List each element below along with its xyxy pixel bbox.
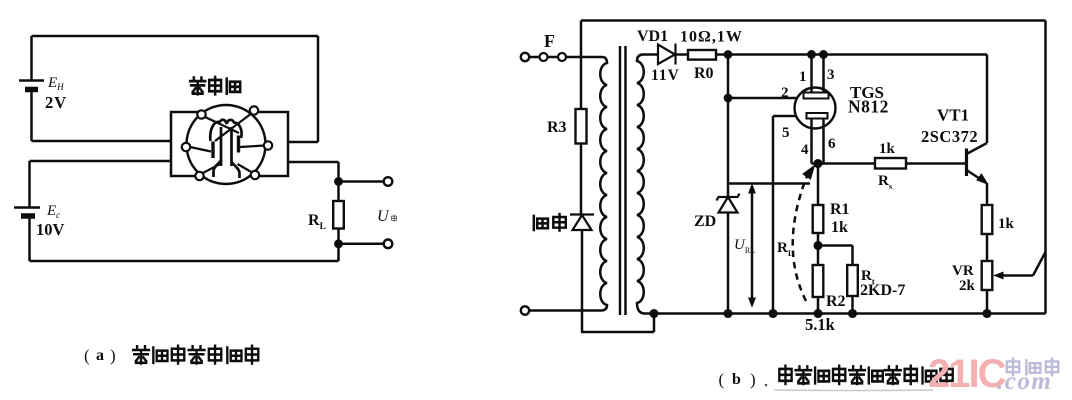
U_RL tick line [729, 182, 810, 185]
svg-text:11V: 11V [651, 67, 680, 84]
node secondary bottom [651, 310, 658, 317]
node pin5 ground [770, 310, 777, 317]
wire Rt bottom [851, 296, 854, 314]
svg-text:4: 4 [801, 142, 809, 158]
svg-text:(: ( [84, 346, 90, 365]
fuse F [540, 53, 567, 61]
terminal mains top [521, 53, 529, 61]
wire E_H vertical top [30, 36, 33, 81]
svg-text:2SC372: 2SC372 [921, 127, 978, 146]
svg-text:1k: 1k [831, 219, 848, 236]
wire fuse line [529, 56, 602, 59]
caption b scan underline [774, 389, 933, 392]
svg-text:F: F [544, 31, 555, 51]
svg-text:): ) [110, 346, 116, 365]
svg-text:a: a [96, 347, 104, 364]
svg-text:R2: R2 [826, 293, 846, 310]
node R2 ground [815, 310, 822, 317]
wire Rs to base [906, 162, 967, 165]
resistor RL [333, 201, 344, 229]
svg-text:10V: 10V [36, 220, 65, 239]
svg-text:2V: 2V [45, 93, 67, 112]
VR wiper [995, 252, 1046, 279]
outer frame top rail [581, 19, 1046, 22]
node ZD bottom [725, 310, 732, 317]
terminal U+ [384, 177, 393, 186]
wire sensor right top [288, 36, 318, 142]
transformer primary winding [600, 57, 607, 311]
pin4 wire [810, 119, 813, 164]
label sensor name [190, 77, 240, 94]
transformer secondary winding [637, 55, 654, 314]
sensor top electrode [804, 93, 829, 99]
svg-text:R0: R0 [694, 65, 714, 82]
svg-text:VR: VR [952, 263, 974, 279]
RL arc arrowhead [803, 166, 815, 180]
junction pins 4-6 [812, 162, 824, 165]
wire R2 bottom [817, 297, 820, 314]
wire VR bottom [986, 290, 989, 314]
node R1-R2 [815, 242, 822, 249]
sensor pins [182, 106, 272, 180]
svg-text:2: 2 [781, 85, 789, 101]
diode VD1 [658, 44, 676, 65]
pin5 wire [773, 116, 797, 314]
node pin3 [820, 51, 826, 57]
svg-text:R1: R1 [830, 201, 850, 218]
wire E_c bottom rail [30, 216, 339, 261]
svg-text:.com: .com [997, 368, 1052, 395]
wire 1k to VR [986, 234, 989, 261]
sensor pin lead lines [190, 113, 265, 174]
svg-text:R3: R3 [547, 119, 567, 136]
svg-text:RL: RL [777, 240, 794, 258]
svg-text:2KD-7: 2KD-7 [860, 282, 905, 299]
svg-text:21IC: 21IC [928, 352, 1006, 396]
wire R1 bottom [817, 233, 820, 265]
dc bottom rail [654, 312, 1046, 315]
svg-text:EH: EH [47, 75, 64, 92]
svg-text:): ) [750, 370, 756, 389]
wire to terminal top [339, 180, 384, 183]
svg-text:1k: 1k [879, 141, 896, 157]
svg-text:6: 6 [828, 136, 836, 152]
wire secondary to VD1 [643, 53, 658, 56]
wire pin2 [728, 97, 797, 100]
node ZD top [725, 51, 731, 57]
svg-text:VT1: VT1 [937, 106, 969, 125]
watermark dianziwang [1007, 359, 1058, 375]
U_RL arrow [749, 185, 755, 307]
resistor R1 [813, 205, 824, 233]
battery E_H [19, 81, 44, 90]
outer frame right [1044, 21, 1047, 314]
transformer core [620, 46, 626, 315]
wire VD1 to R0 [676, 53, 689, 56]
terminal U- [384, 240, 393, 249]
dc plus rail [716, 53, 987, 56]
resistor R2 [813, 265, 824, 297]
resistor R0 [688, 50, 716, 60]
wire ZD to ground [727, 213, 730, 314]
svg-text:RL: RL [308, 212, 326, 232]
svg-text:Ec: Ec [46, 203, 60, 220]
wire top rail a [32, 35, 319, 38]
RL dashed arc [793, 176, 807, 301]
neon lamp [570, 215, 594, 231]
wire R1 top [817, 164, 820, 206]
wire to Rs [818, 162, 875, 165]
terminal mains bottom [521, 306, 529, 314]
battery E_c [14, 208, 40, 217]
wire Rt branch [818, 246, 853, 266]
sensor TGS base rectangle [171, 112, 288, 176]
wire E_H bottom to sensor [32, 90, 172, 142]
sensor circle body [187, 105, 266, 184]
wire mains bottom [529, 309, 601, 312]
svg-text:(: ( [719, 370, 725, 389]
pin6 wire [822, 119, 825, 164]
sensor bottom electrode [807, 113, 828, 119]
pin1 wire [810, 55, 813, 93]
wire E_c top to sensor [30, 161, 172, 208]
zener ZD [717, 194, 740, 213]
svg-text:N812: N812 [848, 97, 889, 117]
svg-text:Rs: Rs [878, 173, 893, 191]
label neon [534, 214, 566, 230]
node pin1 [808, 51, 814, 57]
wire to terminal bottom [339, 243, 384, 246]
sensor TGS circle [795, 88, 836, 129]
svg-text:2k: 2k [959, 278, 976, 294]
svg-text:VD1: VD1 [637, 28, 668, 45]
svg-text:3: 3 [827, 67, 835, 83]
svg-text:1: 1 [799, 69, 807, 85]
resistor R3 [576, 109, 587, 144]
node RL bottom [335, 241, 341, 247]
svg-text:5.1k: 5.1k [805, 315, 836, 334]
potentiometer VR [982, 261, 993, 290]
node pin2 [725, 95, 731, 101]
sensor inner element [210, 120, 241, 178]
node VR ground [984, 310, 991, 317]
svg-text:1k: 1k [998, 216, 1015, 232]
wire ZD vertical [727, 55, 730, 198]
svg-text:ZD: ZD [694, 213, 716, 230]
svg-text:10Ω,1W: 10Ω,1W [680, 29, 743, 46]
wire R3 to neon [580, 144, 583, 215]
wire neon to jog [581, 230, 654, 332]
resistor Rs [875, 158, 906, 169]
resistor 1k emitter [982, 205, 993, 234]
node Rt ground [849, 310, 856, 317]
pin3 wire [822, 55, 825, 93]
transistor VT1 [967, 55, 988, 206]
resistor Rt [847, 265, 858, 296]
wire RL bottom [337, 229, 340, 244]
wire sensor right lower to RL [288, 162, 339, 201]
svg-text:5: 5 [782, 125, 790, 141]
svg-text:b: b [732, 371, 741, 388]
node RL top [335, 178, 341, 184]
R3 neon branch vertical [580, 21, 583, 110]
svg-text:U: U [377, 208, 390, 225]
